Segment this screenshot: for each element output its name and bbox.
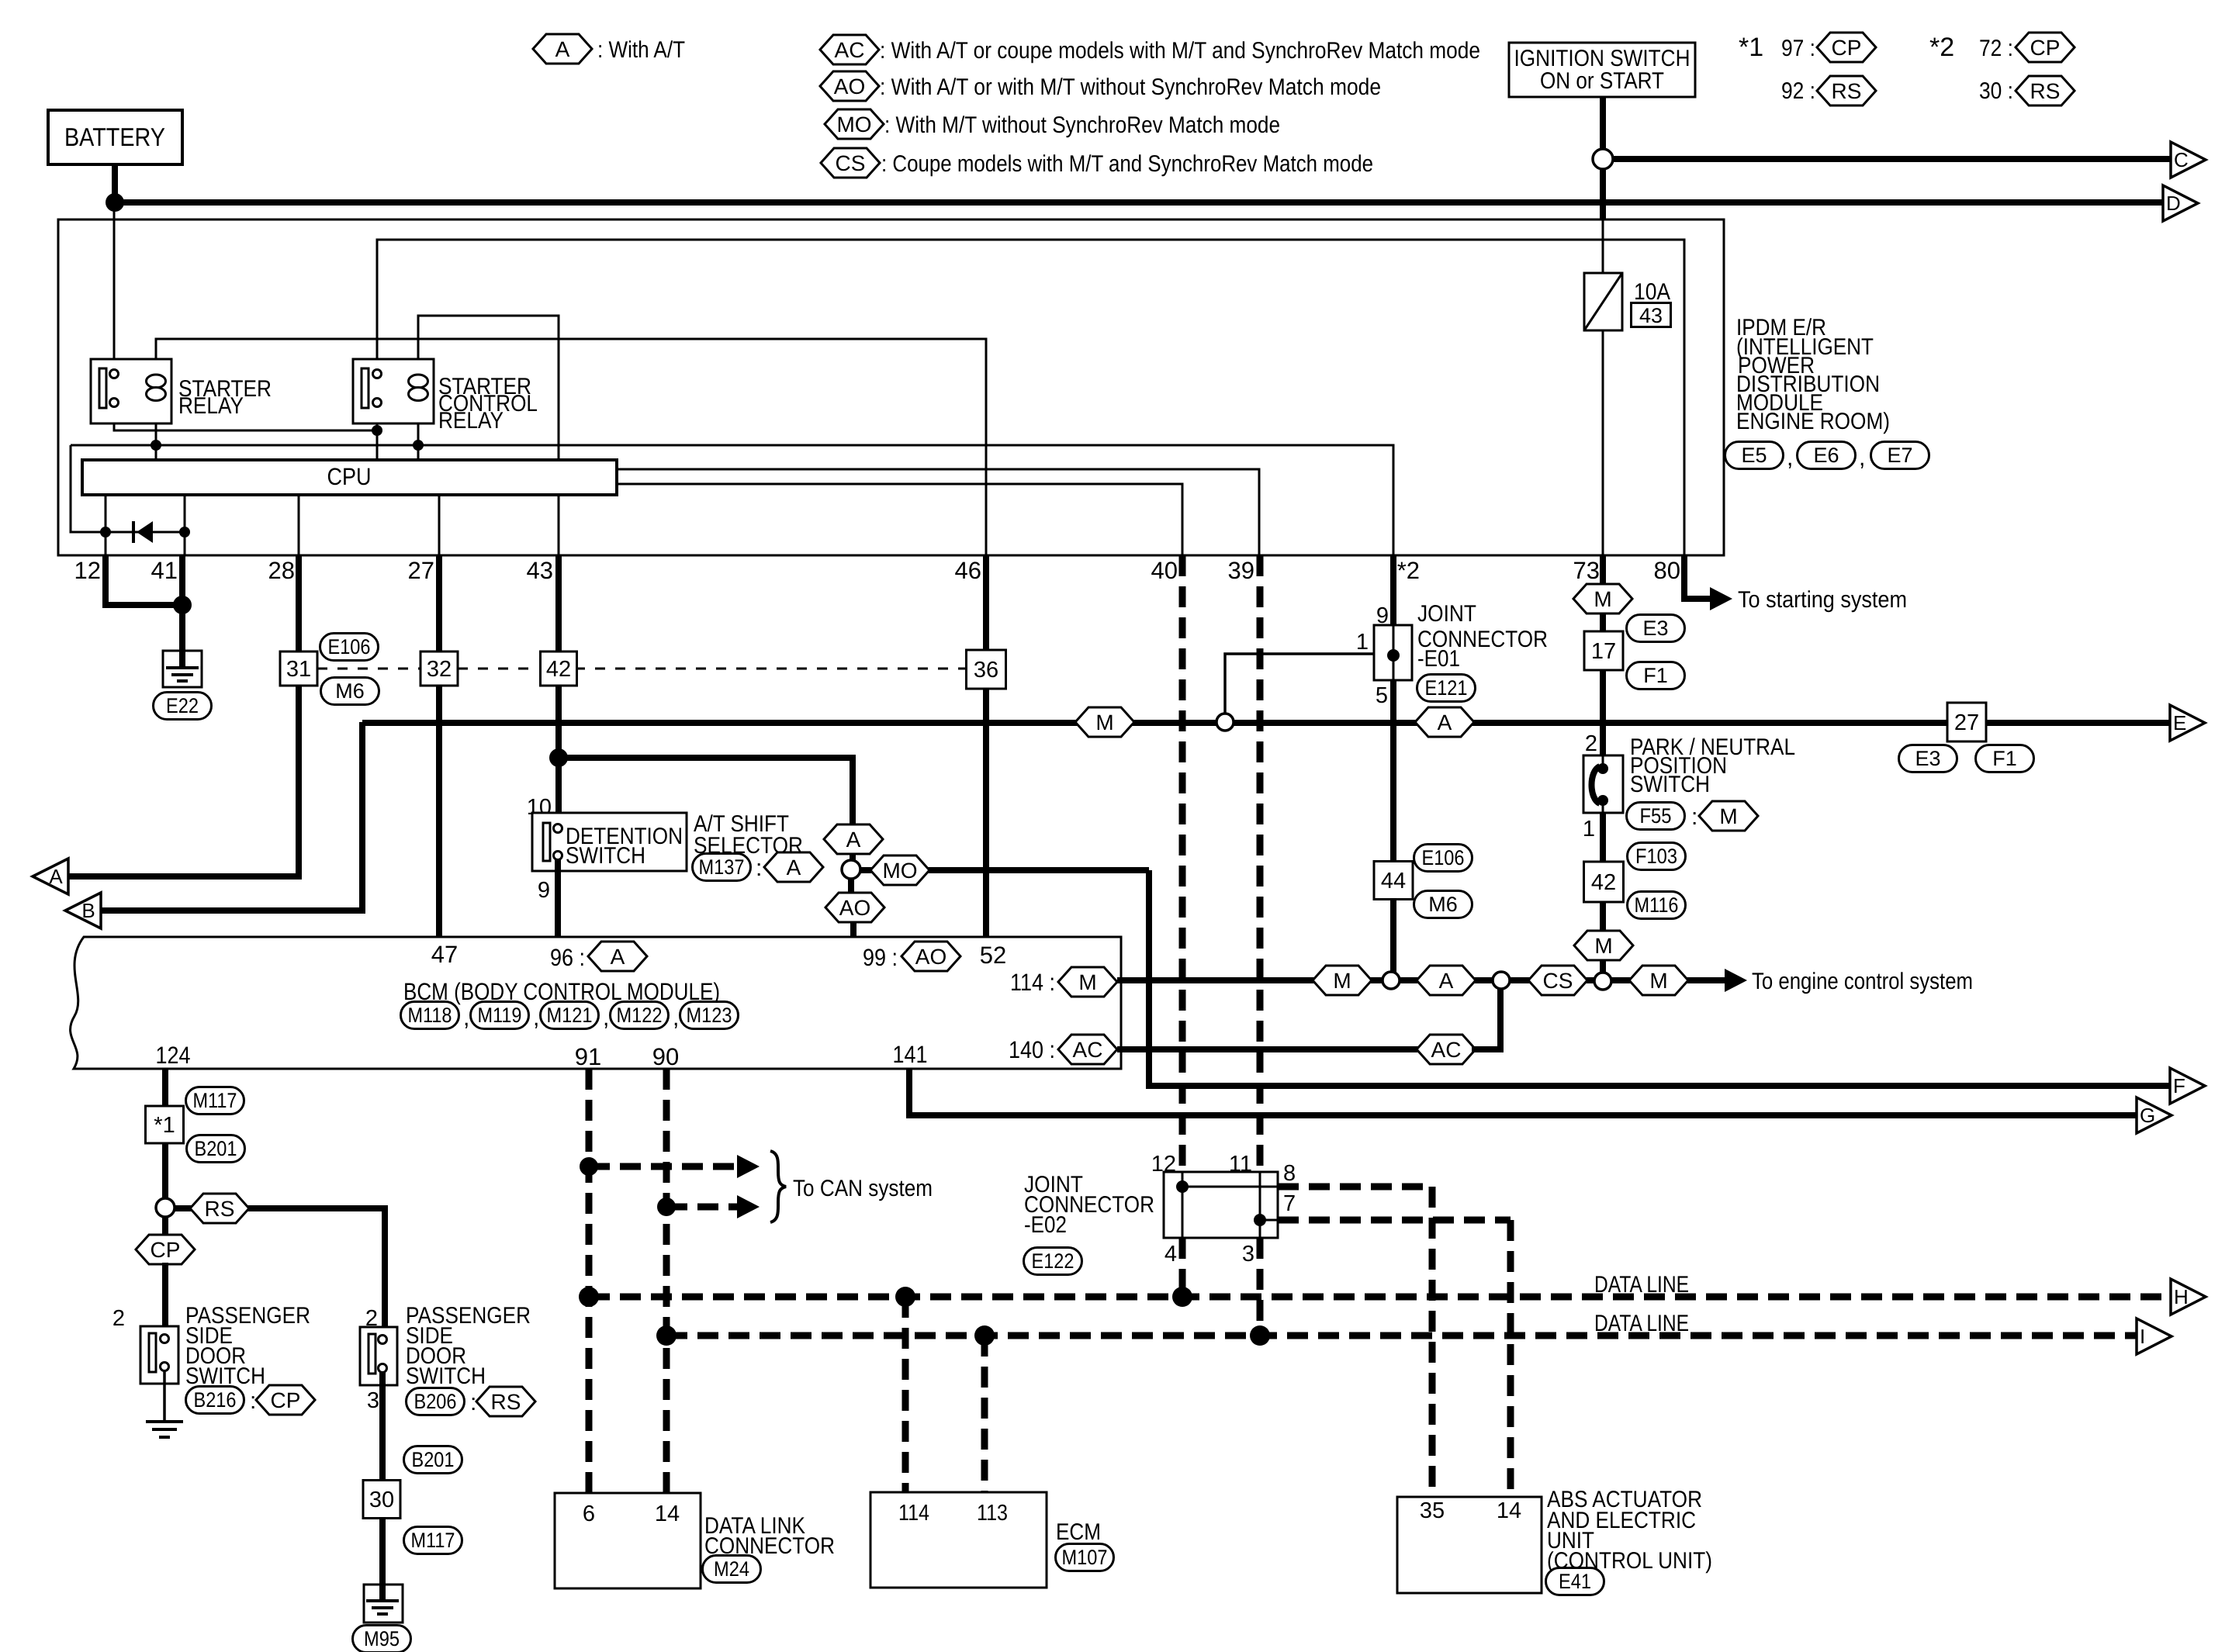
svg-text:46: 46 [955,557,981,584]
svg-text:A: A [49,865,63,888]
svg-text:M: M [1594,934,1612,958]
svg-text:RS: RS [491,1390,521,1414]
svg-text:31: 31 [286,657,311,682]
svg-text:MO: MO [836,112,871,137]
arrow C [2171,142,2206,178]
node junction H ECM [895,1287,915,1307]
svg-text:2: 2 [112,1306,125,1331]
svg-text:SWITCH: SWITCH [566,843,645,869]
label BCM pin 96 : A [550,942,647,971]
starter control relay box [353,359,434,423]
svg-text:AC: AC [835,38,865,62]
CPU box [82,460,617,495]
wire E01 tap riser [1225,654,1376,714]
svg-text:30 :: 30 : [1979,78,2013,104]
svg-text:E121: E121 [1425,676,1468,700]
detention switch box [532,813,687,871]
svg-text:: With M/T without SynchroRev: : With M/T without SynchroRev Match mode [884,112,1280,138]
arrowhead to starting system [1710,587,1732,610]
svg-text:A: A [787,855,801,880]
label BCM pin 140 : AC [1009,1035,1117,1064]
wire ignition to IPDM fuse [1600,169,1606,219]
svg-text:8: 8 [1283,1161,1296,1186]
svg-text:M: M [1095,710,1113,734]
label starter control relay [438,374,538,434]
node circle selector [842,860,860,879]
arrowhead CAN 1 [737,1155,760,1178]
connector E22 [154,693,212,720]
svg-text:M122: M122 [617,1004,663,1027]
svg-text:A: A [1439,969,1454,993]
connector M121 [541,1002,599,1029]
wire pin46 net (starter relay coil to pin 46) [156,339,986,555]
wire starter relay coil to CPU [155,400,157,460]
wire ignition drop [1600,97,1606,150]
wire CAN branch 2 [666,1204,737,1211]
svg-text:F1: F1 [1643,664,1668,687]
svg-text:F103: F103 [1635,845,1677,868]
node ignition junction circle [1593,149,1613,169]
svg-text:CP: CP [1832,36,1862,60]
wire CPU pin 12 [105,495,107,555]
arrow G [2137,1097,2172,1133]
svg-text:G: G [2140,1104,2155,1127]
svg-text:BATTERY: BATTERY [64,123,165,151]
wire CPU pin 27 [438,495,441,555]
wire E02 pin 4 to bus H [1179,1238,1186,1297]
svg-text:42: 42 [1591,870,1616,895]
svg-text:43: 43 [1639,304,1663,327]
svg-text:B206: B206 [414,1390,457,1413]
node circle engine row 2 [1493,972,1510,989]
wire IPDM pin 39 data line [1257,555,1264,1172]
hexagon M (pin 73) [1573,584,1632,613]
svg-text:B201: B201 [195,1137,237,1160]
svg-text:RELAY: RELAY [178,393,244,419]
svg-text:E6: E6 [1813,444,1839,467]
wire M to engine row [1600,960,1606,974]
node diode left junction [100,527,111,537]
wire circle to MO [860,867,873,873]
svg-text:AO: AO [839,896,870,920]
svg-text:M123: M123 [687,1004,732,1027]
brace to CAN system [770,1151,786,1222]
wire fuse to pin 73 [1602,330,1604,555]
svg-text:A: A [555,37,570,61]
legend hexagon CS [821,148,1373,178]
wire MO to bus F [1149,870,2170,1086]
hexagon A (engine row) [1417,966,1476,995]
svg-text:SWITCH: SWITCH [1630,772,1710,797]
svg-text::: : [250,1388,256,1414]
connector M123 [680,1002,739,1029]
wire BCM141 to bus G [909,1069,2137,1115]
svg-text:E22: E22 [166,694,199,717]
svg-text:E106: E106 [1422,846,1465,869]
wire M to 17 [1600,613,1606,631]
wire circle to AO [848,878,854,896]
svg-text:,: , [1787,445,1793,471]
svg-text:M119: M119 [478,1004,522,1027]
svg-text:4: 4 [1164,1242,1177,1267]
dashed connector row 32-42 [458,668,538,670]
svg-text:M117: M117 [193,1089,237,1112]
arrow E [2170,705,2205,741]
svg-text::: : [470,1390,476,1415]
svg-text:B201: B201 [412,1448,455,1471]
label starter relay [178,376,272,419]
svg-text:E106: E106 [328,635,371,658]
node junction I ECM [974,1325,995,1346]
connector B201 (*1) [187,1135,245,1163]
connector B206 : RS [407,1387,536,1416]
wire CPU pin 28 [298,495,300,555]
svg-text:M: M [1333,969,1351,993]
svg-text:9: 9 [1376,603,1389,628]
svg-text:: Coupe models with M/T and Sy: : Coupe models with M/T and SynchroRev M… [881,151,1373,177]
legend hexagon MO [825,109,1280,139]
label A/T shift selector [694,811,803,859]
legend hexagon AC [820,35,1480,64]
connector M107 [1056,1544,1114,1571]
svg-text:MO: MO [882,859,917,883]
wire battery to starter relay switch [113,203,116,370]
svg-text:90: 90 [652,1043,679,1070]
node junction I left [656,1325,677,1346]
svg-text:92 :: 92 : [1781,78,1815,104]
svg-text:: With A/T or with M/T without: : With A/T or with M/T without SynchroRe… [880,74,1381,100]
wire bus E [362,720,2170,726]
svg-text:RS: RS [2030,79,2061,103]
connector E7 [1871,442,1929,469]
node battery junction [106,193,124,212]
hexagon M (PNP column) [1574,931,1633,960]
wire CPU channel to pin 40 [617,484,1182,555]
svg-text:*2: *2 [1929,33,1954,62]
connector B201 (30) [404,1446,462,1474]
dashed connector row 42-36 [575,668,967,670]
connector box 42 [541,651,577,686]
wire BCM 124 to *1 [162,1069,168,1106]
wire BCM 91 data line [586,1069,593,1493]
connector box 31 [280,651,317,686]
wire IPDM *2 pin to E01 [1390,555,1396,625]
wire engine control row [1117,977,1726,983]
wire 42 to hexagon M [1600,902,1606,931]
svg-text:M116: M116 [1635,893,1679,917]
wire A hex to circle [850,854,856,862]
svg-text:E3: E3 [1642,617,1668,640]
hexagon AC (row) [1417,1035,1476,1064]
node circle RS junction [156,1198,175,1217]
node junction I E02 [1250,1325,1270,1346]
ABS actuator box [1397,1497,1542,1593]
wire battery drop [112,164,118,202]
wire BCM 90 data line [663,1069,670,1493]
svg-text:41: 41 [151,557,178,584]
wire MO row [928,867,1149,873]
svg-text:73: 73 [1573,557,1600,584]
svg-text:AO: AO [834,74,865,98]
wire CPU pin 41 [184,495,186,555]
fuse number box 43 [1632,303,1671,327]
hexagon A on bus E [1415,707,1474,737]
svg-text:52: 52 [980,942,1006,969]
hexagon A (selector chain) [824,824,883,854]
svg-text:,: , [1859,445,1865,471]
svg-text:CS: CS [1543,969,1573,993]
svg-text:,: , [673,1005,679,1031]
wire 42 to detention switch [555,686,562,828]
label data link connector [704,1513,835,1559]
node junction H left [579,1287,599,1307]
svg-text:RS: RS [205,1197,235,1221]
wire RS branch [175,1205,192,1211]
svg-text:E5: E5 [1741,444,1767,467]
node junction H E02 [1172,1287,1192,1307]
svg-text:*1: *1 [1739,33,1763,62]
wire 30 to ground [379,1519,386,1598]
wire arrow B to bus E [102,722,362,911]
svg-text:42: 42 [546,657,571,682]
connector M119 [471,1002,529,1029]
svg-text:SWITCH: SWITCH [406,1363,486,1389]
svg-text:30: 30 [369,1488,394,1512]
connector M137 : A [693,852,824,882]
connector M122 [611,1002,669,1029]
connector E6 [1798,442,1856,469]
fuse 10A 43 [1584,273,1622,330]
hexagon AO (selector chain) [825,893,884,922]
arrow H [2171,1279,2206,1315]
wire pin43 net (control relay coil to pin 43) [418,316,559,555]
connector E3 (bus E) [1899,745,1957,772]
svg-text:E122: E122 [1032,1249,1075,1273]
IPDM E/R box outline [58,219,1724,555]
wire E02 pin 3 to bus I [1257,1238,1264,1336]
wire E02 pin 7 to ABS 14 [1278,1217,1511,1224]
node junction coil rail 2 [413,440,424,451]
passenger side door switch B206 [360,1327,397,1385]
wire E01 to connector 44 [1390,680,1396,862]
svg-text:: With A/T or coupe models wit: : With A/T or coupe models with M/T and … [880,38,1480,64]
wire pin 43 to connector 42 [555,555,562,652]
svg-text:80: 80 [1654,557,1680,584]
wire pin 80 to starting system [1684,555,1711,599]
ground E22 symbol [163,651,202,687]
svg-text:140 :: 140 : [1009,1036,1055,1063]
legend *1 pins 97 CP / 92 RS [1739,33,1876,105]
arrow B [65,893,101,928]
legend *2 pins 72 CP / 30 RS [1929,33,2075,105]
connector E106 (row) [320,634,379,661]
hexagon MO (selector chain) [870,855,929,885]
svg-text:113: 113 [977,1501,1008,1526]
arrow I [2137,1318,2172,1354]
connector M117 (*1) [186,1087,244,1115]
wire control relay switch bottom to CPU [376,406,379,460]
svg-text:-E01: -E01 [1417,646,1460,672]
svg-text:32: 32 [427,657,452,682]
wire CAN branch 1 [589,1163,737,1170]
svg-text:A: A [846,828,861,852]
svg-text:6: 6 [583,1502,595,1526]
arrow F [2170,1068,2205,1104]
node junction CAN 1 [580,1157,598,1176]
data link connector box [555,1493,701,1588]
svg-text:,: , [533,1005,539,1031]
svg-text:ECM: ECM [1056,1519,1101,1545]
svg-text:I: I [2140,1325,2145,1348]
svg-text:1: 1 [1583,817,1595,842]
wire AC row [1117,1046,1421,1052]
connector E106 (44) [1414,845,1472,872]
svg-text:F1: F1 [1992,747,2017,770]
diode D1 [132,521,135,543]
svg-text::: : [1691,804,1697,830]
svg-text:M: M [1719,804,1737,828]
hexagon M (engine row left) [1313,966,1372,995]
joint connector E01 box [1374,625,1412,680]
wire B216 to ground [163,1371,166,1422]
svg-text:M137: M137 [699,855,745,879]
wire PNP to connector 42 [1600,813,1606,862]
svg-text:CP: CP [151,1238,181,1262]
connector F55 : M [1627,801,1759,831]
connector M6 (44) [1414,891,1472,918]
svg-text:14: 14 [655,1502,680,1526]
wire E02 pin 8 to ABS 35 [1278,1184,1432,1191]
wire bus I data line [666,1332,2137,1339]
svg-text:*1: *1 [154,1113,175,1138]
svg-text:ON or START: ON or START [1540,68,1664,94]
arrow A [33,859,68,894]
wire 17 to PNP switch [1600,670,1606,758]
svg-text::: : [756,855,762,881]
BCM (body control module) box [71,937,1121,1069]
dashed connector row 31-32 [317,668,420,670]
svg-text:99 :: 99 : [863,944,898,971]
wire rail to diode row [71,445,185,532]
svg-text:CS: CS [836,151,866,175]
wire A/T branch [559,758,853,824]
ground (B216) [146,1422,183,1437]
wire 32 to BCM pin 47 [436,686,442,937]
connector E3 (17) [1627,615,1685,642]
svg-text:43: 43 [527,557,553,584]
svg-text:47: 47 [431,941,458,968]
connector F1 (17) [1627,662,1685,689]
label joint connector E02 [1024,1172,1154,1238]
svg-text:*2: *2 [1397,557,1420,584]
svg-text:H: H [2174,1285,2189,1308]
wire bus I to ECM 113 [981,1336,988,1492]
node circle E01 tap [1216,714,1234,731]
connector box 17 [1584,631,1623,670]
svg-text:M6: M6 [335,679,365,703]
wire *1 to RS junction [162,1143,168,1199]
label detention switch [566,824,683,869]
svg-text:F55: F55 [1640,804,1672,828]
wire pin80 net (control relay switch to pin 80) [377,240,1684,555]
svg-text:44: 44 [1381,869,1406,893]
svg-text:DATA LINE: DATA LINE [1594,1272,1689,1298]
wire 44 to engine row [1390,900,1396,973]
svg-text:5: 5 [1376,683,1388,708]
wire CPU channel to pin 39 [617,469,1259,555]
node junction relay bottoms [372,425,382,436]
svg-text:F: F [2173,1074,2185,1097]
svg-text:E41: E41 [1559,1570,1591,1593]
connector M6 (row) [321,678,379,705]
svg-text:141: 141 [893,1041,928,1068]
svg-text:114 :: 114 : [1010,969,1055,996]
svg-text:CPU: CPU [327,463,372,490]
hexagon M on bus E [1075,707,1134,737]
connector E5 [1725,442,1784,469]
svg-text:27: 27 [408,557,434,584]
svg-text:D: D [2166,192,2181,215]
svg-text:10A: 10A [1634,279,1670,305]
svg-text:36: 36 [974,658,998,683]
svg-text:14: 14 [1497,1498,1521,1523]
park/neutral position switch box [1583,755,1623,813]
wire *2 power rail y574 [71,445,1393,555]
svg-text:72 :: 72 : [1979,36,2013,61]
svg-text:M107: M107 [1062,1546,1108,1569]
svg-text:B216: B216 [194,1388,237,1412]
label joint connector E01 [1417,601,1548,672]
svg-text:96 :: 96 : [550,944,585,971]
label BCM pin 114 : M [1010,967,1117,997]
node circle engine row 3 [1594,973,1611,990]
arrowhead to engine control system [1725,969,1747,992]
node junction pins 12/41 [173,596,192,614]
connector F1 (bus E) [1976,745,2034,772]
svg-text:CP: CP [2030,36,2061,60]
svg-text:JOINT: JOINT [1417,601,1476,627]
hexagon CS (engine row) [1528,966,1587,995]
svg-text:To CAN system: To CAN system [793,1176,933,1201]
battery box [48,110,182,164]
svg-text:97 :: 97 : [1781,36,1815,61]
label IPDM E/R [1736,315,1890,434]
svg-text:-E02: -E02 [1024,1212,1067,1238]
wire bus H data line [589,1294,2171,1301]
svg-text:M118: M118 [408,1004,452,1027]
svg-text:C: C [2174,148,2189,171]
connector box 32 [420,651,458,686]
label ABS actuator and electric unit [1547,1487,1712,1574]
node junction A/T branch [549,748,568,767]
svg-text:12: 12 [74,557,101,584]
connector F103 [1628,843,1686,870]
svg-text:124: 124 [156,1042,191,1069]
connector E41 [1546,1568,1604,1595]
label passenger side door switch (B206) [406,1303,531,1389]
node diode right junction [179,527,190,537]
wire starter relay switch bottom [114,406,377,430]
svg-text:RELAY: RELAY [438,408,504,434]
svg-text:M: M [1594,587,1611,611]
connector E122 [1024,1248,1082,1275]
svg-text:1: 1 [1356,630,1369,655]
svg-text:CP: CP [271,1388,301,1412]
node circle engine row 1 [1383,972,1400,989]
svg-text:,: , [603,1005,609,1031]
connector box *1 [146,1106,184,1143]
svg-text:E7: E7 [1887,444,1912,467]
